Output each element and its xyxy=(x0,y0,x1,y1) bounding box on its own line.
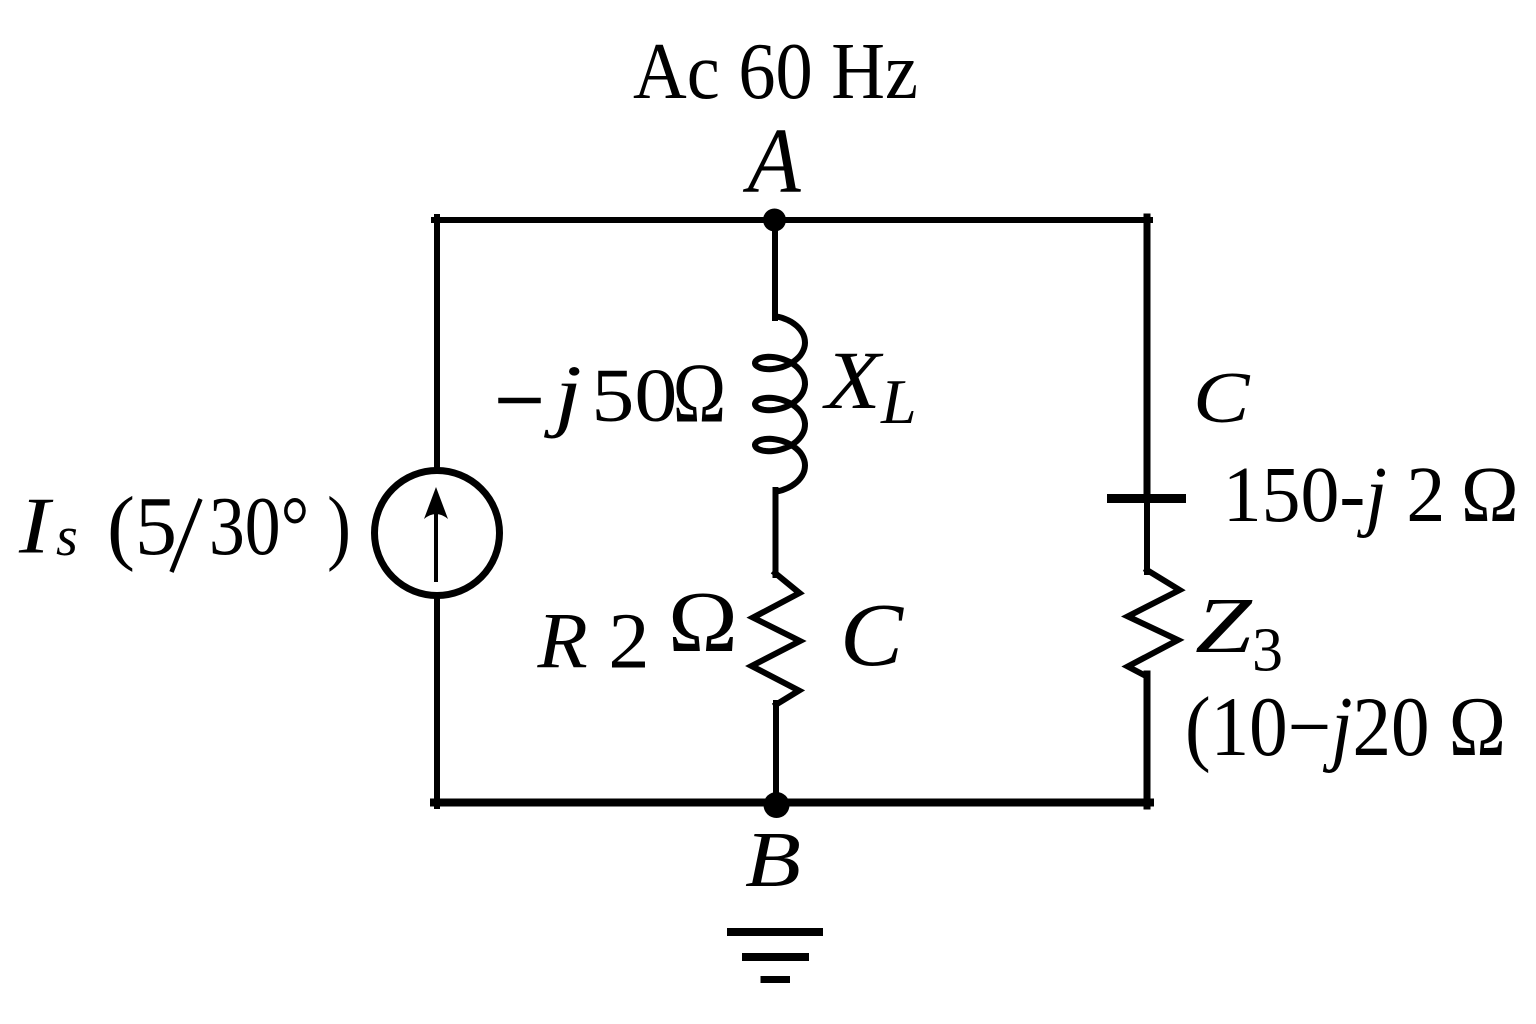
svg-text:X: X xyxy=(822,334,883,426)
svg-text:3: 3 xyxy=(1252,617,1283,685)
svg-text:50: 50 xyxy=(591,354,677,438)
svg-text:Ω: Ω xyxy=(668,573,738,670)
svg-text:150-j 2 Ω: 150-j 2 Ω xyxy=(1223,452,1519,539)
svg-text:I: I xyxy=(18,481,54,571)
svg-text:s: s xyxy=(56,506,78,568)
svg-text:30° ): 30° ) xyxy=(209,480,351,573)
svg-text:C: C xyxy=(840,585,905,684)
svg-text:(5: (5 xyxy=(107,480,177,573)
svg-text:Ω: Ω xyxy=(673,347,726,441)
svg-text:C: C xyxy=(1193,358,1251,438)
svg-text:j: j xyxy=(544,348,582,439)
svg-text:L: L xyxy=(880,366,917,437)
svg-text:Ac 60 Hz: Ac 60 Hz xyxy=(633,28,918,116)
svg-text:(10−j20 Ω: (10−j20 Ω xyxy=(1185,680,1506,774)
svg-text:Z: Z xyxy=(1195,582,1253,670)
svg-text:B: B xyxy=(745,816,801,904)
svg-text:R 2: R 2 xyxy=(536,599,649,686)
svg-text:A: A xyxy=(743,110,802,212)
